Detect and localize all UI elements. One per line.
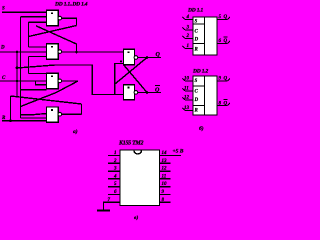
wire R input [2, 120, 47, 122]
wire C branch to gate DD1.3 lower input [36, 81, 47, 85]
wire pin 3 [108, 167, 120, 172]
wire D input [0, 51, 47, 53]
wire pin 5 [108, 182, 120, 187]
ground [97, 210, 110, 212]
wire pin 1 [108, 151, 120, 156]
svg-text:1: 1 [114, 151, 117, 156]
node Q-bar label [155, 86, 160, 94]
svg-text:Q: Q [156, 52, 161, 58]
gate DD1.3 [47, 73, 62, 88]
svg-text:Q: Q [155, 88, 160, 94]
svg-text:Q: Q [224, 77, 228, 82]
wire pin 4 input [183, 15, 194, 20]
wire pin 5 Q output [217, 15, 230, 20]
wire C-wrap gate3 bottom to gate4 input [21, 90, 47, 115]
wire gate4 output [61, 113, 82, 115]
svg-text:1: 1 [187, 44, 190, 49]
gate DD1.1 [47, 10, 62, 25]
IC symbol DD1.2 flip-flop [193, 76, 217, 115]
wire pin 12 [160, 167, 171, 172]
wire vertical bus x20.5 [21, 17, 47, 118]
svg-text:4: 4 [113, 174, 117, 179]
svg-text:11: 11 [162, 174, 167, 179]
gate DD1.2 [47, 44, 62, 59]
svg-text:в): в) [134, 214, 138, 221]
wire gate3 output feedback diagonal [21, 81, 79, 107]
svg-text:S: S [2, 7, 5, 12]
wire cross vertical x28.5 lower with stubs [29, 57, 47, 74]
wire pin 7 to ground [104, 198, 121, 211]
svg-text:S: S [195, 79, 198, 84]
wire cross diagonal X1 up [29, 26, 77, 37]
wire pin 10 input [183, 77, 194, 82]
svg-text:+5 В: +5 В [173, 149, 184, 155]
wire pin 8 Q-bar output [217, 100, 230, 107]
gate DD1.4 [47, 107, 62, 122]
wire cross diagonal middle down-right [124, 65, 148, 93]
wire pin 2 [108, 159, 120, 164]
gate DD2.1 [124, 49, 138, 65]
wire diagonal A with gate4 output hook [11, 96, 82, 121]
svg-text:4: 4 [186, 15, 190, 20]
svg-text:DD 1.2: DD 1.2 [192, 69, 208, 75]
svg-text:Q: Q [224, 102, 228, 107]
svg-text:D: D [194, 38, 199, 43]
wire C-wrap gate5 bottom to gate6 input [115, 64, 124, 95]
wire pin 13 [160, 159, 171, 164]
svg-text:12: 12 [162, 167, 168, 172]
svg-text:13: 13 [184, 106, 190, 111]
wire Q-bar output [138, 92, 161, 94]
svg-text:3: 3 [113, 167, 117, 172]
wire pin 10 [160, 182, 171, 187]
wire pin 6 Q-bar output [217, 37, 230, 44]
junction dots [9, 51, 148, 123]
wire pin 3 input [183, 26, 194, 31]
svg-text:К155 ТМ2: К155 ТМ2 [118, 141, 143, 147]
wire cross vertical x28.5 upper with stubs [29, 22, 47, 47]
gate DD2.2 [124, 85, 138, 100]
wire pin 11 input [183, 87, 194, 92]
wire cross diagonal middle down-left [115, 58, 147, 85]
wire gate2 output to gate5 [61, 51, 124, 53]
svg-text:D: D [194, 98, 199, 103]
wire pin 2 input [183, 34, 194, 39]
svg-text:Q: Q [224, 15, 228, 20]
svg-text:D: D [0, 46, 5, 51]
svg-text:13: 13 [162, 159, 168, 164]
svg-text:DD 1.1: DD 1.1 [187, 8, 203, 14]
wire pin 13 input [183, 106, 194, 111]
wire C input [0, 80, 47, 82]
svg-text:10: 10 [162, 182, 168, 187]
svg-text:2: 2 [113, 159, 117, 164]
wire vertical bus x17 [16, 52, 18, 97]
wire pin 4 [108, 174, 120, 179]
wire pin 6 [108, 190, 120, 195]
svg-text:S: S [195, 20, 198, 25]
wire shallow diagonal to gate6 input [17, 65, 124, 95]
wire pin 11 [160, 174, 171, 179]
wire pin 14 +5V [160, 149, 184, 157]
IC symbol DD1.1 flip-flop [193, 17, 217, 55]
svg-text:3: 3 [186, 26, 190, 31]
svg-text:12: 12 [184, 96, 190, 101]
IC package DIP-14 body [120, 150, 160, 206]
svg-text:10: 10 [184, 77, 190, 82]
svg-text:а): а) [73, 128, 78, 135]
wire pin 12 input [183, 96, 194, 101]
svg-text:11: 11 [184, 87, 189, 92]
wire cross diagonal X1 down [36, 26, 77, 52]
svg-text:2: 2 [186, 34, 190, 39]
wire pin 9 Q output [217, 77, 230, 82]
wire Q output [138, 57, 161, 59]
wire pin 9 [160, 190, 171, 195]
wire gate1 output feedback hook [61, 18, 77, 25]
svg-text:DD 1.1..DD 1.4: DD 1.1..DD 1.4 [54, 2, 88, 8]
svg-text:б): б) [199, 125, 204, 132]
svg-text:14: 14 [162, 151, 168, 156]
wire pin 1 input [183, 44, 194, 49]
wire pin 8 [160, 198, 171, 203]
svg-text:Q: Q [224, 39, 228, 44]
wire S input [2, 11, 47, 13]
